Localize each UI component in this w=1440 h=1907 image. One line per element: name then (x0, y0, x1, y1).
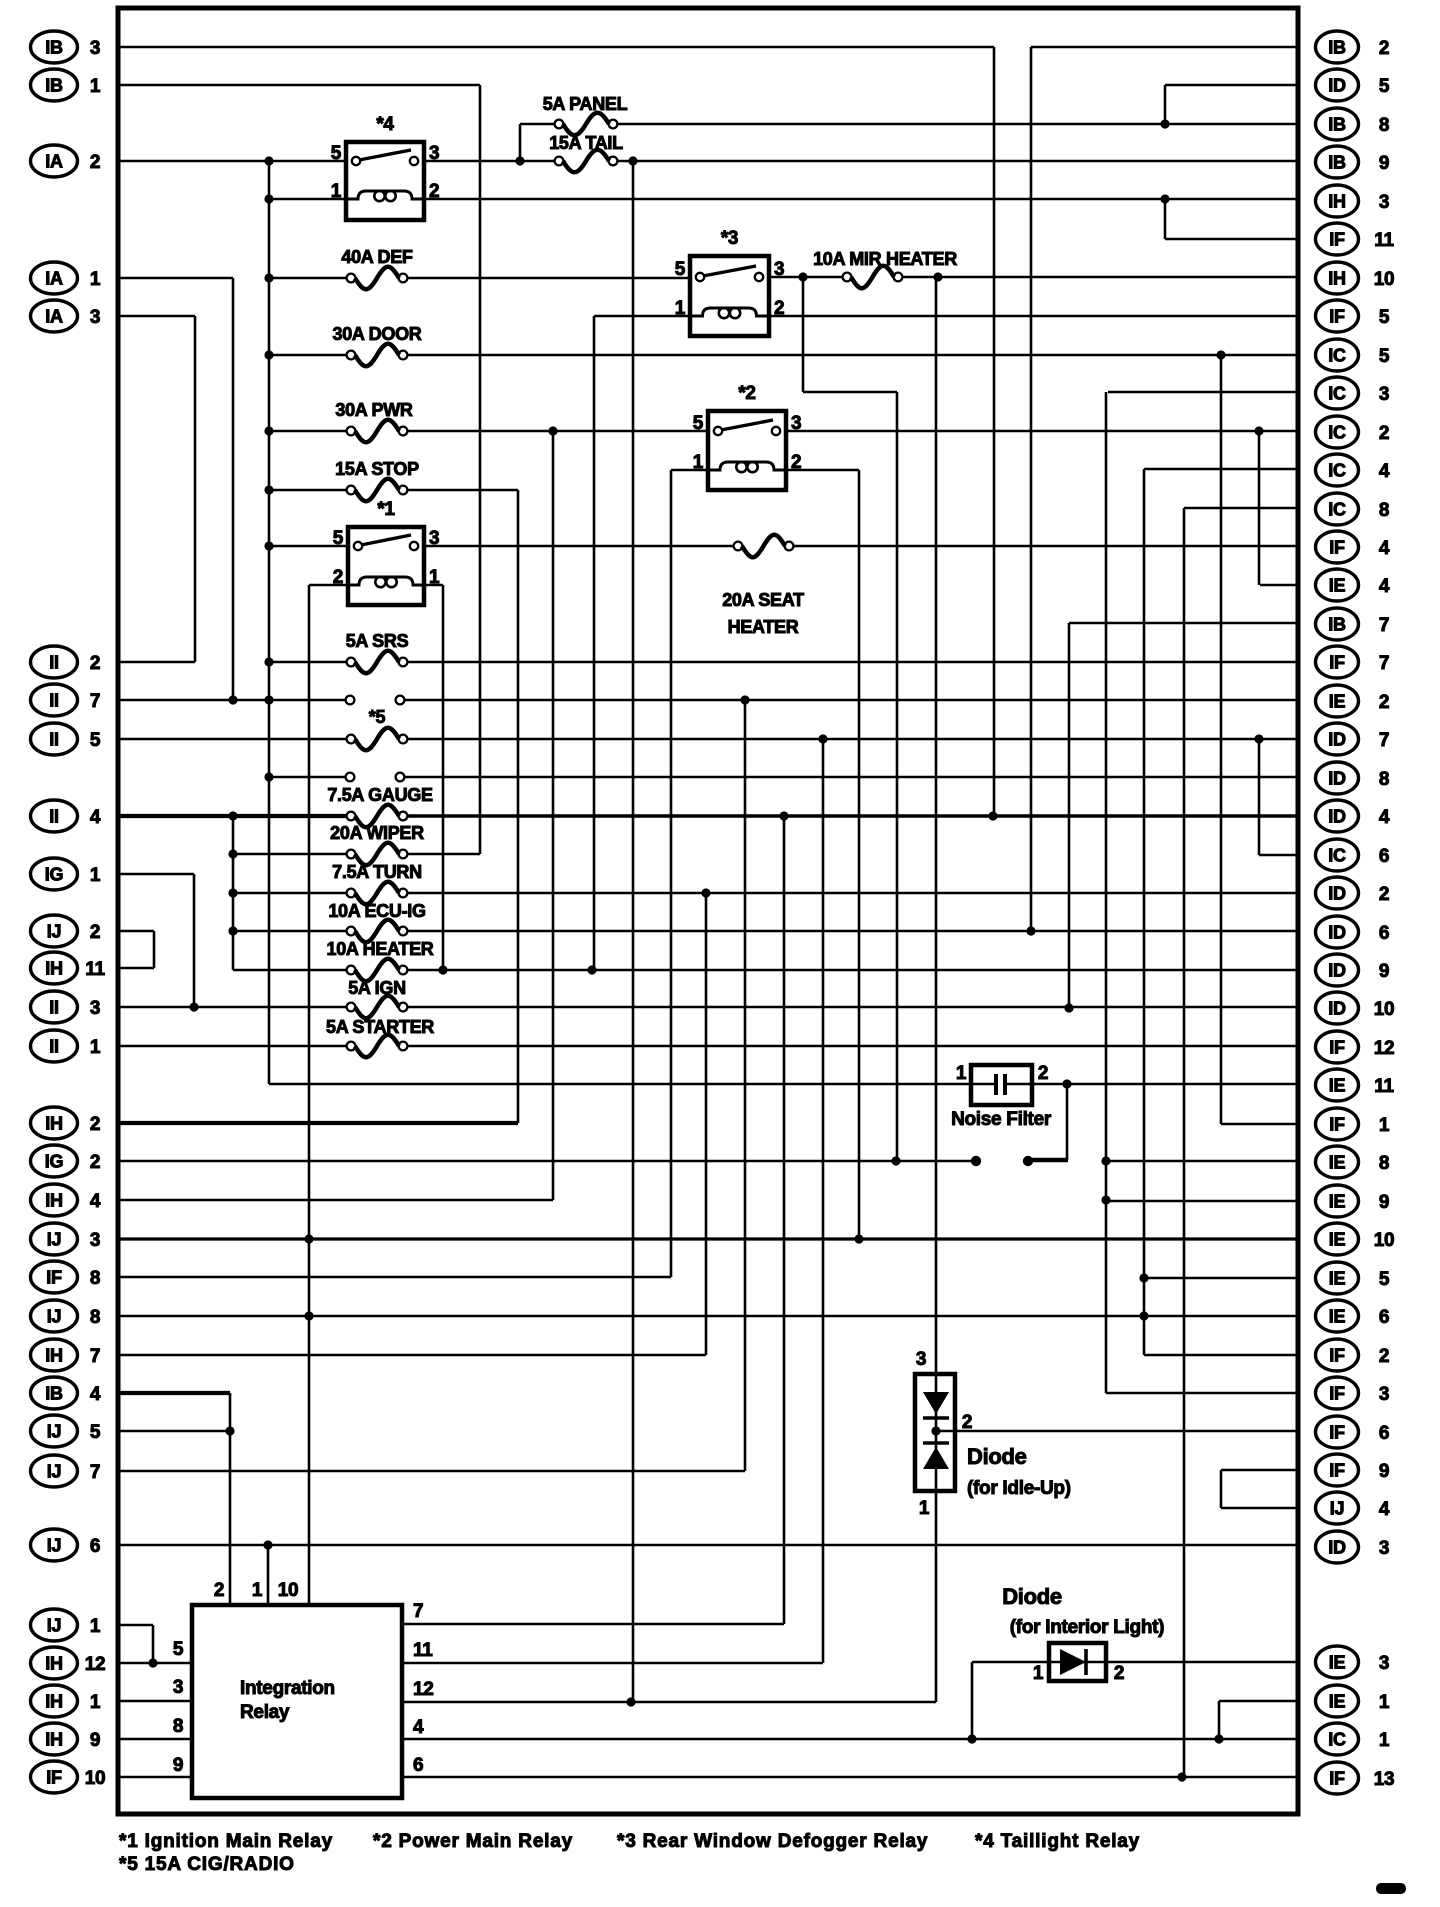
svg-text:Relay: Relay (240, 1702, 290, 1723)
svg-text:9: 9 (1379, 1461, 1389, 1482)
svg-text:IH: IH (45, 1114, 62, 1134)
svg-text:IB: IB (45, 1384, 63, 1404)
svg-text:2: 2 (791, 452, 801, 473)
svg-text:7: 7 (413, 1601, 423, 1622)
svg-text:1: 1 (252, 1580, 263, 1601)
svg-text:5: 5 (1379, 307, 1390, 328)
svg-text:13: 13 (1374, 1769, 1395, 1790)
svg-text:IE: IE (1329, 1076, 1346, 1096)
svg-text:ID: ID (1328, 76, 1346, 96)
svg-text:ID: ID (1328, 1538, 1346, 1558)
svg-text:IE: IE (1329, 1230, 1346, 1250)
svg-text:8: 8 (1379, 115, 1389, 136)
svg-text:1: 1 (675, 298, 686, 319)
svg-text:IH: IH (45, 1730, 62, 1750)
svg-text:3: 3 (791, 413, 801, 434)
svg-text:10A ECU-IG: 10A ECU-IG (328, 901, 425, 921)
svg-text:IJ: IJ (47, 1462, 61, 1482)
svg-text:(for Interior Light): (for Interior Light) (1010, 1617, 1164, 1638)
svg-text:11: 11 (1374, 230, 1394, 251)
svg-text:8: 8 (1379, 1153, 1389, 1174)
svg-text:11: 11 (1374, 1076, 1394, 1097)
svg-text:Noise Filter: Noise Filter (951, 1109, 1052, 1130)
svg-text:15A STOP: 15A STOP (335, 459, 419, 479)
svg-text:4: 4 (1379, 461, 1390, 482)
svg-text:IF: IF (1329, 538, 1345, 558)
svg-text:7: 7 (1379, 653, 1389, 674)
svg-text:IF: IF (1329, 1115, 1345, 1135)
svg-text:6: 6 (1379, 1423, 1389, 1444)
svg-text:2: 2 (774, 298, 784, 319)
svg-text:IJ: IJ (47, 1307, 61, 1327)
svg-text:II: II (49, 653, 58, 673)
svg-text:10A HEATER: 10A HEATER (326, 939, 433, 959)
svg-text:IA: IA (45, 152, 63, 172)
svg-text:2: 2 (333, 567, 343, 588)
svg-text:II: II (49, 807, 58, 827)
svg-text:8: 8 (1379, 769, 1389, 790)
svg-text:IC: IC (1328, 384, 1346, 404)
svg-text:4: 4 (90, 1384, 101, 1405)
svg-text:1: 1 (919, 1498, 930, 1519)
svg-text:3: 3 (90, 38, 100, 59)
svg-text:6: 6 (1379, 923, 1389, 944)
svg-text:5: 5 (675, 259, 686, 280)
svg-text:*3 Rear Window Defogger Relay: *3 Rear Window Defogger Relay (617, 1831, 928, 1852)
svg-text:IH: IH (1328, 269, 1345, 289)
svg-text:Integration: Integration (240, 1678, 335, 1699)
svg-text:IC: IC (1328, 846, 1346, 866)
svg-text:1: 1 (1379, 1730, 1390, 1751)
svg-text:8: 8 (1379, 500, 1389, 521)
svg-text:1: 1 (1379, 1692, 1390, 1713)
svg-text:8: 8 (90, 1307, 100, 1328)
svg-text:IH: IH (45, 1692, 62, 1712)
svg-text:7.5A TURN: 7.5A TURN (332, 862, 422, 882)
svg-text:8: 8 (90, 1268, 100, 1289)
svg-text:20A SEAT: 20A SEAT (722, 590, 804, 610)
svg-text:3: 3 (774, 259, 784, 280)
svg-text:2: 2 (90, 653, 100, 674)
svg-text:1: 1 (693, 452, 704, 473)
svg-text:12: 12 (413, 1679, 434, 1700)
svg-text:5: 5 (1379, 76, 1390, 97)
svg-text:6: 6 (90, 1536, 100, 1557)
svg-text:2: 2 (90, 152, 100, 173)
svg-text:IE: IE (1329, 1653, 1346, 1673)
svg-text:ID: ID (1328, 961, 1346, 981)
svg-text:IE: IE (1329, 576, 1346, 596)
svg-text:IE: IE (1329, 1153, 1346, 1173)
svg-text:5A PANEL: 5A PANEL (543, 94, 628, 114)
svg-text:IH: IH (45, 1191, 62, 1211)
svg-text:1: 1 (90, 269, 101, 290)
svg-text:II: II (49, 730, 58, 750)
svg-text:5A SRS: 5A SRS (346, 631, 409, 651)
svg-text:5: 5 (333, 528, 344, 549)
svg-text:IC: IC (1328, 461, 1346, 481)
svg-text:3: 3 (429, 528, 439, 549)
svg-text:1: 1 (90, 1037, 101, 1058)
svg-text:IG: IG (45, 865, 63, 885)
svg-text:*3: *3 (721, 228, 738, 249)
svg-text:4: 4 (90, 807, 101, 828)
svg-text:IE: IE (1329, 1269, 1346, 1289)
svg-text:ID: ID (1328, 884, 1346, 904)
svg-text:10: 10 (1374, 269, 1395, 290)
svg-text:4: 4 (90, 1191, 101, 1212)
svg-text:10: 10 (85, 1768, 106, 1789)
svg-text:IE: IE (1329, 1192, 1346, 1212)
svg-text:IA: IA (45, 269, 63, 289)
svg-text:IA: IA (45, 307, 63, 327)
svg-text:5: 5 (693, 413, 704, 434)
svg-text:2: 2 (1379, 1346, 1389, 1367)
svg-text:1: 1 (429, 567, 440, 588)
svg-text:10: 10 (1374, 1230, 1395, 1251)
svg-text:IF: IF (1329, 307, 1345, 327)
svg-text:IH: IH (45, 1346, 62, 1366)
svg-text:5A STARTER: 5A STARTER (326, 1017, 434, 1037)
svg-text:IJ: IJ (47, 1422, 61, 1442)
svg-text:3: 3 (90, 998, 100, 1019)
svg-text:7: 7 (90, 1462, 100, 1483)
svg-text:IC: IC (1328, 500, 1346, 520)
svg-text:5: 5 (1379, 346, 1390, 367)
svg-text:IJ: IJ (47, 1616, 61, 1636)
svg-text:IF: IF (1329, 1038, 1345, 1058)
svg-text:5: 5 (90, 730, 101, 751)
svg-text:3: 3 (90, 1230, 100, 1251)
svg-text:2: 2 (1379, 692, 1389, 713)
svg-text:IH: IH (45, 959, 62, 979)
svg-text:8: 8 (173, 1716, 183, 1737)
svg-text:IC: IC (1328, 346, 1346, 366)
svg-text:IB: IB (45, 38, 63, 58)
svg-text:IE: IE (1329, 1307, 1346, 1327)
svg-text:IJ: IJ (47, 922, 61, 942)
svg-text:7: 7 (90, 1346, 100, 1367)
svg-text:2: 2 (214, 1580, 224, 1601)
svg-text:1: 1 (956, 1063, 967, 1084)
svg-text:IB: IB (1328, 115, 1346, 135)
svg-text:3: 3 (1379, 1538, 1389, 1559)
svg-text:3: 3 (90, 307, 100, 328)
svg-text:ID: ID (1328, 730, 1346, 750)
svg-text:9: 9 (1379, 1192, 1389, 1213)
svg-text:ID: ID (1328, 769, 1346, 789)
svg-text:II: II (49, 1037, 58, 1057)
svg-text:2: 2 (90, 1152, 100, 1173)
svg-text:10A MIR HEATER: 10A MIR HEATER (813, 249, 957, 269)
svg-text:7.5A GAUGE: 7.5A GAUGE (327, 785, 433, 805)
svg-text:IF: IF (1329, 230, 1345, 250)
svg-text:3: 3 (429, 143, 439, 164)
svg-text:30A DOOR: 30A DOOR (333, 324, 422, 344)
svg-text:2: 2 (1379, 423, 1389, 444)
svg-text:IE: IE (1329, 692, 1346, 712)
svg-text:3: 3 (1379, 1384, 1389, 1405)
svg-text:5: 5 (1379, 1269, 1390, 1290)
svg-text:5: 5 (331, 143, 342, 164)
svg-text:9: 9 (1379, 961, 1389, 982)
svg-text:2: 2 (1038, 1063, 1048, 1084)
svg-text:11: 11 (85, 959, 105, 980)
svg-text:4: 4 (1379, 1499, 1390, 1520)
svg-text:3: 3 (1379, 192, 1389, 213)
svg-text:ID: ID (1328, 923, 1346, 943)
svg-text:4: 4 (1379, 807, 1390, 828)
svg-text:IF: IF (1329, 1769, 1345, 1789)
svg-text:IB: IB (1328, 153, 1346, 173)
svg-text:IH: IH (45, 1654, 62, 1674)
svg-text:1: 1 (90, 1616, 101, 1637)
svg-text:1: 1 (90, 1692, 101, 1713)
svg-text:7: 7 (1379, 615, 1389, 636)
svg-text:4: 4 (1379, 576, 1390, 597)
svg-text:4: 4 (413, 1717, 424, 1738)
svg-text:6: 6 (1379, 846, 1389, 867)
svg-text:HEATER: HEATER (728, 617, 799, 637)
svg-text:9: 9 (90, 1730, 100, 1751)
svg-text:IH: IH (1328, 192, 1345, 212)
svg-text:IF: IF (1329, 1346, 1345, 1366)
svg-text:12: 12 (85, 1654, 106, 1675)
svg-text:4: 4 (1379, 538, 1390, 559)
svg-text:10: 10 (1374, 999, 1395, 1020)
svg-text:6: 6 (413, 1755, 423, 1776)
svg-text:(for Idle-Up): (for Idle-Up) (967, 1478, 1071, 1499)
svg-text:IF: IF (1329, 1423, 1345, 1443)
svg-text:IF: IF (1329, 1384, 1345, 1404)
svg-text:IG: IG (45, 1152, 63, 1172)
svg-text:7: 7 (1379, 730, 1389, 751)
svg-text:5A IGN: 5A IGN (348, 978, 406, 998)
svg-text:2: 2 (962, 1412, 972, 1433)
svg-text:3: 3 (1379, 1653, 1389, 1674)
svg-text:IB: IB (45, 76, 63, 96)
svg-text:*4: *4 (376, 114, 394, 135)
svg-text:3: 3 (916, 1349, 926, 1370)
svg-text:40A DEF: 40A DEF (341, 247, 413, 267)
svg-text:2: 2 (90, 1114, 100, 1135)
svg-text:ID: ID (1328, 807, 1346, 827)
svg-text:2: 2 (1379, 884, 1389, 905)
svg-text:*1 Ignition Main Relay: *1 Ignition Main Relay (119, 1831, 333, 1852)
svg-text:7: 7 (90, 691, 100, 712)
svg-text:IF: IF (46, 1768, 62, 1788)
svg-text:15A TAIL: 15A TAIL (549, 133, 623, 153)
svg-text:IB: IB (1328, 615, 1346, 635)
svg-text:*4 Taillight Relay: *4 Taillight Relay (975, 1831, 1140, 1852)
svg-text:5: 5 (173, 1639, 184, 1660)
svg-text:II: II (49, 998, 58, 1018)
svg-text:Diode: Diode (1002, 1584, 1062, 1609)
svg-text:ID: ID (1328, 999, 1346, 1019)
svg-text:II: II (49, 691, 58, 711)
svg-text:IC: IC (1328, 423, 1346, 443)
svg-text:5: 5 (90, 1422, 101, 1443)
svg-text:IJ: IJ (47, 1536, 61, 1556)
svg-text:11: 11 (413, 1640, 433, 1661)
svg-text:3: 3 (173, 1677, 183, 1698)
svg-text:1: 1 (90, 76, 101, 97)
svg-text:IE: IE (1329, 1692, 1346, 1712)
svg-text:2: 2 (1114, 1663, 1124, 1684)
svg-text:2: 2 (429, 181, 439, 202)
svg-text:6: 6 (1379, 1307, 1389, 1328)
svg-text:2: 2 (1379, 38, 1389, 59)
svg-text:9: 9 (1379, 153, 1389, 174)
svg-text:*2 Power Main Relay: *2 Power Main Relay (373, 1831, 573, 1852)
svg-text:IF: IF (1329, 653, 1345, 673)
svg-text:1: 1 (1379, 1115, 1390, 1136)
svg-text:IF: IF (46, 1268, 62, 1288)
svg-text:IF: IF (1329, 1461, 1345, 1481)
svg-text:1: 1 (90, 865, 101, 886)
svg-text:*5 15A CIG/RADIO: *5 15A CIG/RADIO (119, 1854, 295, 1875)
svg-text:Diode: Diode (967, 1444, 1027, 1469)
svg-text:IJ: IJ (1330, 1499, 1344, 1519)
svg-text:9: 9 (173, 1755, 183, 1776)
svg-text:IB: IB (1328, 38, 1346, 58)
svg-text:*2: *2 (738, 383, 755, 404)
svg-text:1: 1 (1033, 1663, 1044, 1684)
svg-text:*5: *5 (369, 707, 386, 727)
svg-text:*1: *1 (377, 499, 395, 520)
svg-text:IJ: IJ (47, 1230, 61, 1250)
svg-text:30A PWR: 30A PWR (335, 400, 413, 420)
svg-text:1: 1 (331, 181, 342, 202)
svg-text:3: 3 (1379, 384, 1389, 405)
svg-text:20A WIPER: 20A WIPER (330, 823, 424, 843)
svg-text:IC: IC (1328, 1730, 1346, 1750)
svg-text:10: 10 (278, 1580, 299, 1601)
svg-text:2: 2 (90, 922, 100, 943)
svg-text:12: 12 (1374, 1038, 1395, 1059)
